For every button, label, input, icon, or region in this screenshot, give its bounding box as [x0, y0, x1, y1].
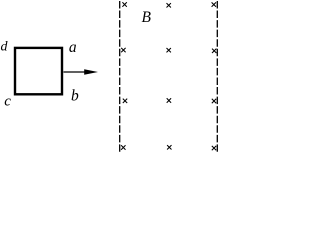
flux cross r3c3	[212, 99, 216, 103]
velocity arrow head	[84, 69, 98, 74]
flux cross r1c2	[167, 3, 171, 7]
flux cross r4c3	[212, 146, 216, 150]
svg-text:B: B	[142, 9, 152, 26]
field region left boundary dashed line	[119, 1, 121, 152]
flux cross r4c1	[121, 145, 125, 149]
flux cross r4c2	[167, 145, 171, 149]
flux cross r2c1	[121, 48, 125, 52]
flux cross r1c1	[122, 2, 126, 6]
flux cross r2c2	[167, 48, 171, 52]
field region right boundary dashed line	[216, 1, 218, 152]
flux cross r1c3	[212, 2, 216, 6]
svg-text:b: b	[71, 88, 79, 105]
velocity arrow wire	[64, 71, 88, 73]
svg-text:d: d	[1, 40, 9, 55]
flux cross r3c2	[167, 98, 171, 102]
conducting square loop abcd	[15, 48, 62, 94]
flux cross r3c1	[123, 99, 127, 103]
svg-text:c: c	[4, 94, 11, 110]
svg-text:a: a	[69, 39, 77, 56]
flux cross r2c3	[212, 49, 216, 53]
